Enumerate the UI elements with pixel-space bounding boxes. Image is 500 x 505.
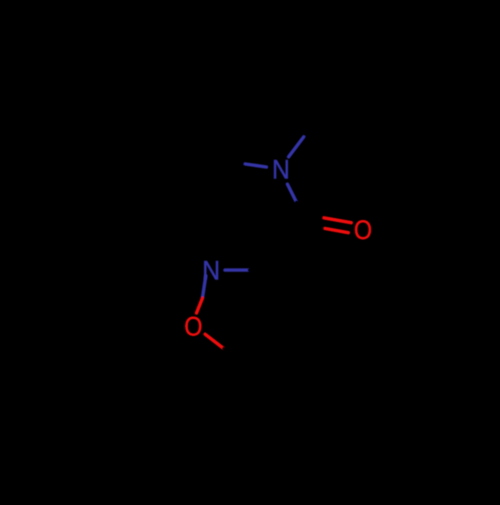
svg-text:O: O: [184, 312, 202, 342]
amide N ring bond blue halves: [289, 137, 304, 157]
N -> O ring bond: [202, 276, 205, 298]
C5 ethyl: [236, 372, 288, 477]
carbonyl C=O double bond: [297, 213, 324, 218]
svg-text:O: O: [354, 215, 372, 245]
svg-text:N: N: [272, 155, 290, 185]
N -> carbonyl bond: [287, 184, 296, 202]
isoxazolidine N -> C3: [225, 268, 250, 271]
top azocane ring dark bonds: [122, 32, 327, 192]
O -> C5: [205, 334, 224, 348]
svg-text:N: N: [202, 255, 220, 285]
C3 -> C4 -> C5: [254, 270, 322, 371]
carbonyl C -> C3: [288, 220, 301, 271]
